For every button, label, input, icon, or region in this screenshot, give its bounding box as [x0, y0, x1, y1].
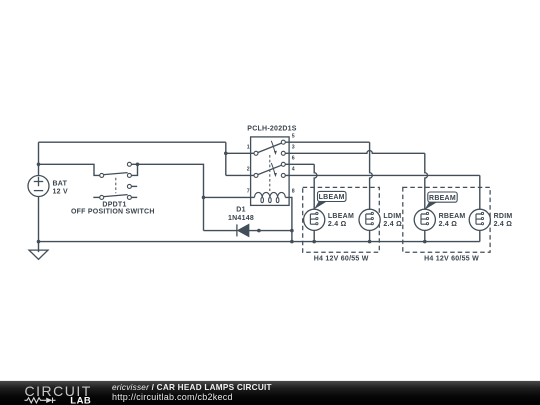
svg-text:http://circuitlab.com/cb2kecd: http://circuitlab.com/cb2kecd: [112, 392, 233, 402]
switch DPDT1: [100, 162, 132, 199]
wire relay pin2 feed: [226, 174, 254, 176]
wire pole2 throw stub lower: [131, 196, 137, 198]
svg-text:OFF POSITION SWITCH: OFF POSITION SWITCH: [71, 208, 155, 215]
ground: [29, 250, 48, 259]
wire pole2 throw stub upper: [131, 185, 137, 187]
label RDIM 2.4 ohm: [494, 213, 513, 228]
svg-text:PCLH-202D1S: PCLH-202D1S: [247, 126, 297, 133]
battery BAT: [28, 176, 49, 197]
wire RDIM bottom: [479, 224, 481, 241]
wire switch to relay coil bend: [138, 164, 204, 197]
label LBEAM 2.4 ohm: [328, 213, 354, 228]
svg-text:1: 1: [247, 144, 250, 150]
wire switch throw tie: [131, 164, 137, 175]
relay pin circles: [254, 140, 285, 177]
label BAT 12 V: [53, 180, 68, 195]
svg-text:LBEAM: LBEAM: [319, 194, 345, 201]
logo resistor-diode squiggle: [25, 398, 56, 404]
svg-text:RDIM: RDIM: [494, 213, 513, 220]
wire ground rail: [39, 241, 480, 243]
wire pin3 to RBEAM with hop: [285, 151, 427, 214]
svg-text:5: 5: [292, 133, 295, 139]
svg-text:1N4148: 1N4148: [228, 215, 254, 222]
svg-text:7: 7: [247, 189, 250, 195]
logo CIRCUIT: [25, 383, 272, 405]
label RBEAM 2.4 ohm: [439, 213, 466, 228]
lamp RBEAM: [414, 209, 435, 230]
wire battery to switch common: [39, 164, 100, 175]
svg-text:RBEAM: RBEAM: [429, 195, 456, 202]
svg-text:LBEAM: LBEAM: [328, 213, 354, 220]
svg-text:RBEAM: RBEAM: [439, 213, 466, 220]
wire LDIM bottom: [369, 224, 371, 241]
svg-text:6: 6: [292, 155, 295, 161]
junction dots: [37, 152, 427, 244]
svg-text:LDIM: LDIM: [383, 213, 401, 220]
svg-text:12 V: 12 V: [53, 189, 68, 196]
svg-text:4: 4: [292, 167, 295, 173]
svg-text:H4 12V 60/55 W: H4 12V 60/55 W: [314, 256, 369, 263]
relay U1 PCLH-202D1S body: [251, 137, 290, 206]
svg-text:ericvisser / CAR HEAD LAMPS CI: ericvisser / CAR HEAD LAMPS CIRCUIT: [112, 383, 272, 392]
relay internal contacts: [258, 141, 282, 191]
svg-text:8: 8: [292, 189, 295, 195]
lamp LBEAM: [304, 209, 325, 230]
wire battery positive stub: [38, 142, 40, 175]
wire ground stub: [38, 242, 40, 253]
svg-text:2.4 Ω: 2.4 Ω: [383, 221, 402, 228]
lamp RDIM: [469, 209, 490, 230]
wire relay feed vertical: [225, 142, 227, 175]
svg-text:2.4 Ω: 2.4 Ω: [494, 221, 513, 228]
wire pin4 to RDIM with hops: [285, 175, 480, 214]
svg-text:2.4 Ω: 2.4 Ω: [439, 221, 458, 228]
svg-text:2: 2: [247, 167, 250, 173]
wire coil bend to diode: [203, 197, 205, 230]
wire LBEAM bottom: [313, 224, 315, 241]
callout RBEAM: [425, 192, 458, 210]
lamp LDIM: [359, 209, 380, 230]
wire relay pin1 feed: [226, 152, 254, 154]
wire pin6 to LBEAM: [285, 164, 317, 214]
svg-text:H4 12V 60/55 W: H4 12V 60/55 W: [424, 256, 479, 263]
wire relay pin8 to ground: [285, 197, 292, 241]
relay actuation arrowheads: [274, 151, 277, 177]
wire battery negative stub: [38, 197, 40, 242]
footer bar: [0, 381, 540, 405]
relay coil: [255, 192, 286, 202]
wire pin5 to LDIM: [285, 142, 372, 214]
callout LBEAM: [314, 191, 346, 209]
wire pole2 common stub: [93, 196, 99, 198]
wire diode anode side: [249, 230, 292, 232]
diode D1 1N4148: [237, 224, 249, 236]
svg-text:LAB: LAB: [70, 395, 91, 405]
dashed group box right headlamp: [403, 187, 490, 252]
wire RBEAM bottom: [424, 224, 426, 241]
wire diode cathode side: [204, 230, 238, 232]
dashed group box left headlamp: [303, 187, 380, 252]
wire coil feed pin 7: [204, 196, 255, 198]
svg-text:2.4 Ω: 2.4 Ω: [328, 221, 347, 228]
label LDIM 2.4 ohm: [383, 213, 402, 228]
svg-text:3: 3: [292, 144, 295, 150]
wire top rail from battery to relay feed: [39, 141, 226, 143]
svg-text:BAT: BAT: [53, 180, 68, 187]
svg-text:D1: D1: [236, 206, 245, 213]
